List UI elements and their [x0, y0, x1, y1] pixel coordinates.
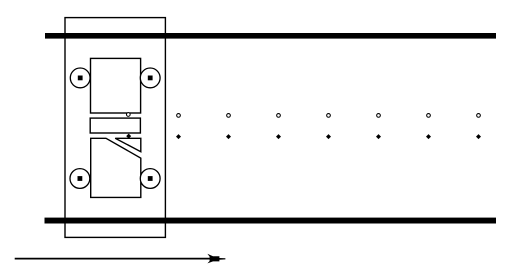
chain pin 6	[376, 134, 381, 139]
chain pin 2	[176, 134, 181, 139]
chain roller 3	[227, 114, 231, 118]
chain pin 5	[326, 134, 331, 139]
chain roller 2	[177, 114, 181, 118]
chain roller 6	[377, 114, 381, 118]
chain roller 4	[277, 114, 281, 118]
chain pin (inside carriage)	[126, 134, 131, 139]
chain pin 8	[476, 134, 481, 139]
chain pin 7	[426, 134, 431, 139]
wheel top-left	[70, 68, 90, 88]
carriage frame	[65, 18, 165, 238]
crossbar	[90, 118, 140, 133]
chain roller 8	[477, 114, 481, 118]
direction arrow	[15, 254, 226, 264]
wheel bottom-right	[140, 169, 160, 189]
top rail	[45, 33, 496, 39]
chain roller 5	[327, 114, 331, 118]
bottom rail	[45, 218, 497, 224]
chain pin 4	[276, 134, 281, 139]
chain roller (inside carriage)	[126, 113, 130, 117]
wheel top-right	[140, 68, 160, 88]
upper block	[91, 58, 141, 113]
slot corner piece	[115, 138, 141, 151]
lower block with diagonal slot	[91, 138, 141, 197]
chain roller 7	[427, 114, 431, 118]
chain pin 3	[226, 134, 231, 139]
wheel bottom-left	[70, 169, 90, 189]
